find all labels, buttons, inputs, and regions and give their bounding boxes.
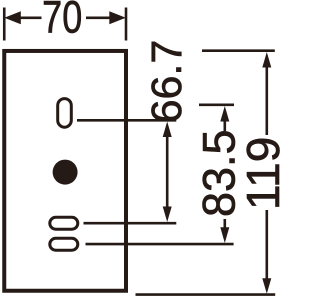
svg-text:119: 119	[237, 137, 283, 210]
svg-text:70: 70	[42, 0, 82, 43]
svg-text:66.7: 66.7	[143, 40, 191, 124]
